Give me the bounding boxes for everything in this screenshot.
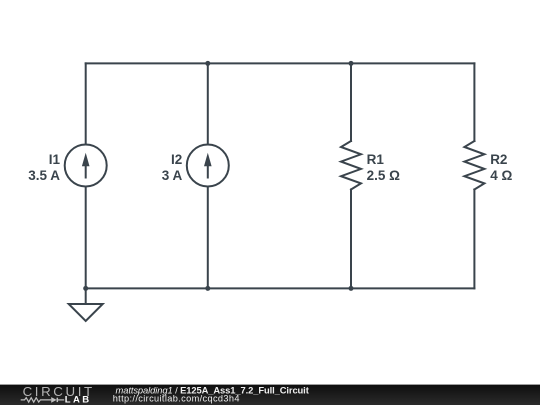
svg-text:R1: R1 — [367, 152, 385, 167]
svg-text:LAB: LAB — [65, 395, 92, 405]
svg-text:I2: I2 — [171, 152, 182, 167]
svg-text:4 Ω: 4 Ω — [490, 168, 512, 183]
svg-text:http://circuitlab.com/cqcd3h4: http://circuitlab.com/cqcd3h4 — [113, 394, 240, 404]
svg-text:2.5 Ω: 2.5 Ω — [367, 168, 401, 183]
svg-text:3 A: 3 A — [162, 168, 183, 183]
svg-text:R2: R2 — [490, 152, 507, 167]
svg-text:I1: I1 — [49, 152, 61, 167]
svg-text:3.5 A: 3.5 A — [28, 168, 60, 183]
